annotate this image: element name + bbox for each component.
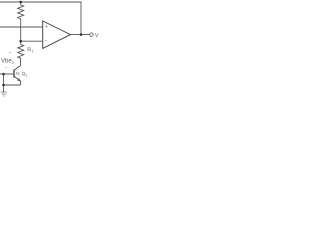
- svg-text:V: V: [95, 33, 99, 39]
- svg-text:Q2: Q2: [22, 71, 28, 77]
- svg-text:+: +: [45, 24, 48, 30]
- svg-text:N: N: [16, 71, 20, 77]
- svg-text:Vbe2: Vbe2: [1, 59, 15, 66]
- svg-text:R1: R1: [27, 47, 33, 53]
- svg-text:−: −: [5, 64, 8, 69]
- svg-text:+: +: [9, 50, 12, 55]
- svg-text:−: −: [45, 38, 48, 44]
